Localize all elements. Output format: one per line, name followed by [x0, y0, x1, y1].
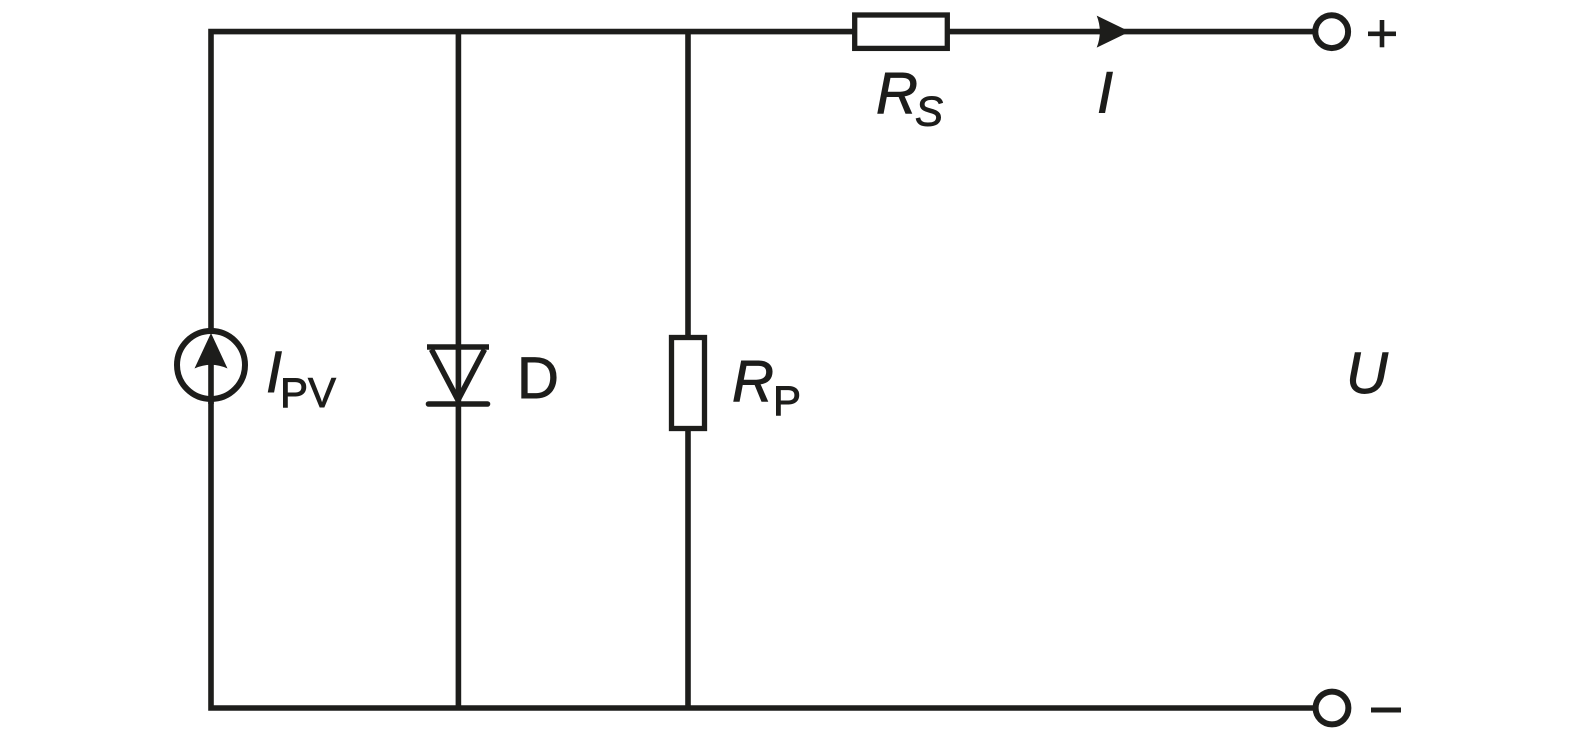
svg-text:R: R — [732, 349, 774, 414]
svg-text:D: D — [517, 346, 559, 411]
svg-text:I: I — [1097, 61, 1113, 126]
svg-text:R: R — [876, 61, 918, 126]
svg-text:P: P — [773, 377, 801, 424]
svg-text:U: U — [1346, 341, 1389, 406]
svg-text:PV: PV — [280, 369, 336, 416]
svg-text:S: S — [915, 88, 943, 135]
